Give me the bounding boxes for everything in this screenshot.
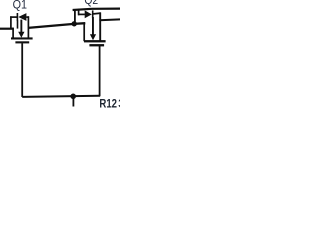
wire top rail to right edge	[73, 9, 120, 10]
svg-text:Q2: Q2	[84, 0, 98, 7]
wire stub from bottom junction down	[72, 96, 74, 106]
wire Q1 diode loop right vertical / drain contact	[27, 16, 29, 38]
diode D1 (body diode of Q1, cathode left)	[10, 13, 29, 21]
svg-text:3: 3	[118, 97, 120, 109]
wire mid top (Q1 drain to junction, slightly rising)	[28, 23, 85, 28]
transistor Q2 gate bar	[89, 44, 104, 46]
diode D2 (body diode of Q2, cathode right)	[78, 10, 101, 18]
wire Q2 diode loop left vertical	[78, 10, 80, 15]
transistor Q2 source contact	[83, 23, 85, 41]
svg-text:Q1: Q1	[13, 0, 28, 12]
node junction dot on bottom rail	[70, 94, 76, 100]
transistor Q1 source contact	[12, 28, 14, 39]
wire stub cathode bar to source wire (Q1)	[17, 21, 19, 29]
node junction dot on top wire	[72, 21, 77, 26]
wire Q1 diode loop left vertical	[10, 16, 12, 29]
wire Q1 gate stem down to bottom rail	[21, 43, 23, 97]
transistor Q1 gate bar	[15, 41, 29, 43]
wire Q2 diode loop right vertical / drain contact	[99, 12, 101, 41]
transistor Q2 body arrow	[90, 17, 96, 40]
background	[0, 0, 120, 109]
wire bottom rail	[22, 96, 100, 97]
wire Q2 gate stem down to bottom rail	[99, 46, 101, 96]
svg-text:R12: R12	[99, 97, 117, 109]
wire from top rail down to junction	[74, 10, 76, 23]
transistor Q1 body arrow	[18, 20, 24, 38]
wire Q2 drain exit to right edge	[99, 18, 120, 21]
transistor Q1 channel bar	[11, 37, 33, 39]
wire left input to Q1 source	[0, 28, 13, 30]
transistor Q2 channel bar	[84, 40, 106, 42]
